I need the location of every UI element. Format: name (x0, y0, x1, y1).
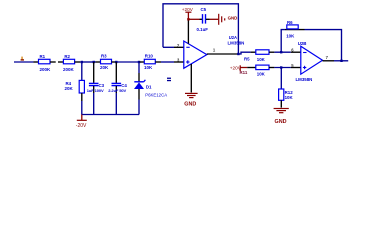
pin 4 marker (167, 78, 171, 82)
pin 3 (174, 61, 184, 63)
svg-text:20K: 20K (65, 86, 74, 91)
svg-text:10K: 10K (285, 95, 294, 100)
power -20V (76, 115, 87, 129)
svg-text:1uF 100V: 1uF 100V (87, 88, 104, 93)
ground below U2A (184, 93, 197, 107)
node junction feedback/pin6 (280, 51, 282, 53)
svg-text:LM358N: LM358N (296, 77, 313, 82)
node junction R12/pin5 (280, 66, 282, 68)
svg-text:-20V: -20V (76, 123, 87, 129)
wire C5 to ground (210, 18, 219, 20)
svg-text:10K: 10K (257, 57, 266, 62)
node junction pin8/+20V (187, 18, 189, 20)
wire output right (334, 60, 348, 62)
capacitor C1 (87, 62, 105, 115)
svg-text:R10: R10 (145, 54, 154, 59)
diode D1 TVS (134, 62, 167, 115)
svg-text:R11: R11 (240, 70, 248, 75)
pin 1 output U2A (207, 53, 239, 55)
pin 5 (291, 67, 301, 69)
resistor R12 (279, 68, 294, 108)
svg-text:C5: C5 (201, 7, 207, 12)
svg-text:+20V: +20V (182, 7, 194, 12)
pin 8 (187, 19, 189, 43)
power +20V (182, 7, 194, 19)
capacitor C5 (197, 7, 210, 32)
wire to pin 2 (163, 46, 174, 48)
svg-text:U2A: U2A (229, 35, 237, 40)
wire feedback loop U2B (281, 30, 285, 53)
wire power to C5 (188, 18, 199, 20)
svg-text:10K: 10K (286, 33, 295, 38)
pin 7 output U2B (323, 60, 335, 62)
svg-text:GND: GND (228, 15, 238, 20)
svg-text:R3: R3 (101, 54, 107, 59)
svg-text:R5: R5 (244, 56, 250, 61)
pin 2 (174, 46, 184, 48)
svg-text:200K: 200K (63, 67, 75, 72)
svg-text:U2B: U2B (298, 41, 307, 46)
ground sideways (219, 14, 238, 25)
node junction C1 (93, 61, 95, 63)
wire bottom rail (82, 114, 139, 116)
resistor R5 (244, 50, 274, 62)
ground below R12 (274, 109, 289, 126)
pin 4 (190, 64, 192, 93)
node junction D1 (138, 61, 140, 63)
svg-text:2.2uF 50V: 2.2uF 50V (108, 88, 126, 93)
resistor R3 (96, 54, 117, 70)
capacitor C2 (108, 62, 127, 115)
wire feedback loop U2A (163, 4, 238, 54)
node junction feedback/output U2B (340, 60, 342, 62)
svg-text:R6: R6 (287, 20, 293, 25)
svg-text:R2: R2 (64, 54, 70, 59)
svg-text:R1: R1 (40, 54, 46, 59)
svg-text:0.1uF: 0.1uF (197, 27, 209, 32)
svg-text:D1: D1 (146, 84, 152, 89)
svg-text:GND: GND (184, 101, 196, 107)
resistor R10 (140, 54, 162, 70)
svg-text:10K: 10K (257, 72, 266, 77)
op-amp U2A (184, 35, 245, 68)
wire input rail left segment (14, 61, 34, 63)
resistor R6 feedback (285, 20, 305, 39)
wire feedback right (305, 30, 342, 61)
svg-text:GND: GND (275, 119, 287, 125)
resistor R2 (58, 54, 80, 72)
resistor R4 (65, 62, 85, 115)
node junction feedback/output (237, 53, 239, 55)
node junction C2 (115, 61, 117, 63)
svg-text:200K: 200K (40, 67, 52, 72)
svg-text:20K: 20K (100, 65, 109, 70)
pin 6 (291, 51, 301, 53)
resistor R11 (240, 65, 275, 77)
wire R11 to pin 5 (274, 67, 290, 69)
node 1 input marker (21, 57, 22, 60)
wire to op-amp plus input (161, 61, 174, 63)
svg-text:LM358N: LM358N (228, 41, 245, 46)
wire rail segment (116, 61, 139, 63)
svg-text:10K: 10K (144, 65, 153, 70)
wire R5 to pin 6 (274, 51, 290, 53)
svg-text:P6KE12CA: P6KE12CA (145, 93, 167, 98)
op-amp U2B (296, 41, 323, 82)
wire output to R5 (238, 52, 250, 54)
resistor R1 (34, 54, 56, 72)
wire rail segment (80, 61, 95, 63)
node junction R4 (81, 61, 83, 63)
power +20V R11 (230, 65, 247, 71)
